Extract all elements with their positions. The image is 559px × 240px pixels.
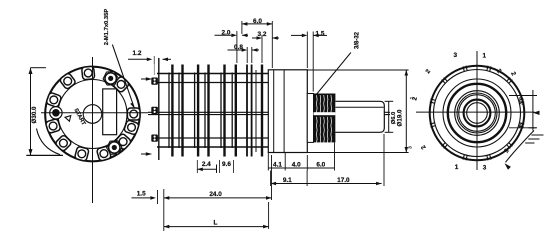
- svg-text:17.0: 17.0: [337, 177, 350, 184]
- svg-text:9.1: 9.1: [283, 177, 292, 184]
- svg-text:15: 15: [519, 123, 525, 129]
- svg-text:6.0: 6.0: [316, 161, 325, 168]
- svg-text:L: L: [214, 220, 218, 227]
- svg-text:3: 3: [483, 165, 487, 172]
- svg-text:4.0: 4.0: [292, 161, 301, 168]
- svg-text:1: 1: [483, 53, 487, 60]
- svg-text:2-M1.7x0.35P: 2-M1.7x0.35P: [104, 9, 110, 46]
- svg-text:3: 3: [407, 146, 413, 149]
- svg-text:1: 1: [455, 164, 459, 171]
- svg-text:24.0: 24.0: [209, 191, 222, 198]
- svg-text:3/8-32: 3/8-32: [355, 31, 361, 49]
- svg-text:Ø19.0: Ø19.0: [396, 109, 403, 126]
- svg-text:30°: 30°: [519, 97, 525, 105]
- svg-text:4.1: 4.1: [273, 161, 282, 168]
- svg-text:9.6: 9.6: [222, 161, 231, 168]
- svg-text:1.2: 1.2: [133, 50, 142, 57]
- svg-text:3: 3: [454, 52, 458, 59]
- svg-text:2.4: 2.4: [202, 161, 211, 168]
- svg-text:Ø30.0: Ø30.0: [31, 106, 38, 123]
- svg-text:1.5: 1.5: [137, 191, 146, 198]
